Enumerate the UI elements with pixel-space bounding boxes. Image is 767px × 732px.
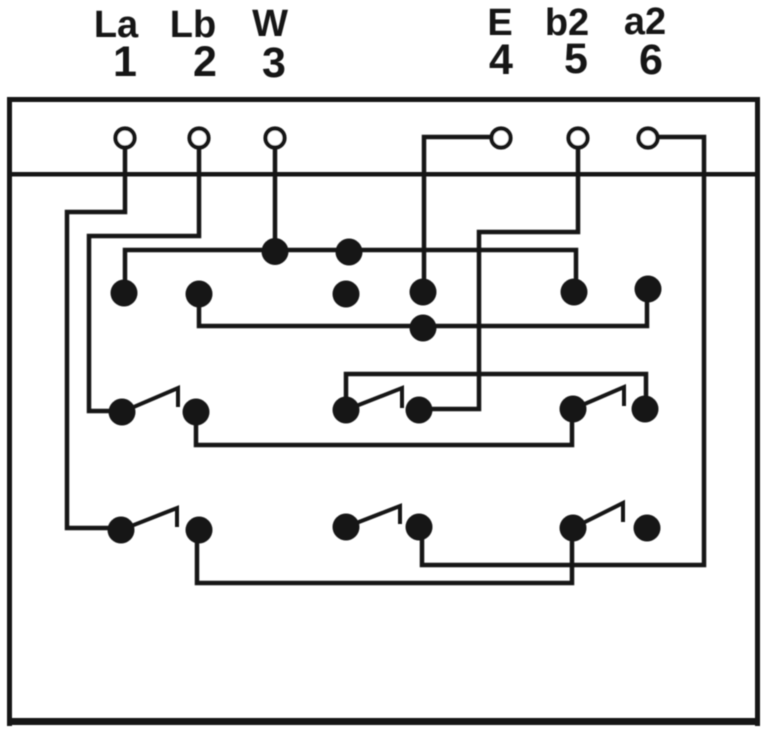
svg-text:3: 3 [262,39,286,87]
svg-text:5: 5 [564,35,588,83]
svg-text:2: 2 [193,38,217,86]
svg-text:4: 4 [489,36,513,84]
svg-text:1: 1 [113,38,137,86]
svg-text:6: 6 [639,36,663,84]
